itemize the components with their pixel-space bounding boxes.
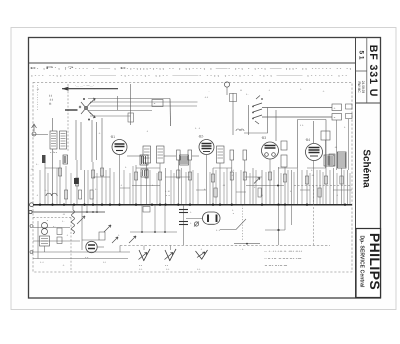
wire output stage frame (298, 120, 327, 169)
svg-text:·••: ·•• (222, 183, 225, 187)
svg-text:•·•·: •·•· (197, 268, 201, 271)
wire gang drop 4 (96, 122, 98, 160)
svg-text:·••: ·•• (311, 173, 314, 177)
svg-text:·•: ·• (120, 183, 122, 187)
loudspeaker LS2 (165, 249, 177, 268)
Dpt SERVICE Central text (359, 235, 365, 288)
AVC dashed vertical (313, 186, 315, 246)
svg-text:•·: •· (31, 173, 33, 177)
svg-text:•·: •· (204, 187, 206, 191)
svg-text:•··: •·· (53, 225, 56, 229)
oscillator coil L1 (50, 131, 57, 149)
svg-text:••: •• (240, 88, 242, 92)
svg-text:·••: ·•• (62, 212, 65, 216)
svg-text:Dp˵ SERVICE Central: Dp˵ SERVICE Central (359, 235, 365, 288)
svg-text:•·: •· (290, 189, 292, 193)
IF transformer S2 (143, 146, 151, 163)
wire switch feedback loop (244, 105, 268, 135)
svg-text:• •·: • •· (300, 123, 304, 127)
wire ferrite drop (101, 118, 103, 160)
dark capacitor block (74, 178, 79, 184)
svg-text:,... ..,,…... —— .,.…,.: ,... ..,,…... —— .,.…,. ,,.. ——. ..,, ,.… (30, 73, 348, 77)
svg-text:•· ••: •· •• (165, 189, 170, 193)
tone caps column (346, 104, 353, 119)
wire coil drops right (326, 119, 349, 170)
svg-text:•··: •·· (95, 187, 98, 191)
svg-text:•·: •· (125, 165, 127, 169)
svg-text:•·•: •·• (139, 264, 142, 268)
resistor R3 (177, 150, 181, 160)
header separator line (29, 62, 356, 64)
main HT bus (30, 203, 352, 207)
IF can S6 striped (180, 155, 189, 165)
svg-text:•·•: •·• (103, 261, 106, 264)
tube B1 (110, 135, 127, 155)
capacitor block C8 (42, 155, 68, 164)
tone block striped (324, 155, 334, 166)
svg-text:•·•·: •·•· (139, 268, 143, 271)
svg-text:·B1: ·B1 (110, 135, 115, 139)
rectifier tube B6 (85, 241, 97, 259)
wire antenna lead (33, 134, 48, 136)
wire gang drop 3 (91, 120, 93, 162)
resistor R6 (230, 150, 234, 160)
wire fan line 1 (88, 98, 170, 100)
svg-text:•·: •· (190, 221, 192, 225)
wire volume line (132, 185, 284, 187)
svg-text:·•: ·• (231, 173, 233, 177)
title text Schema (361, 149, 372, 188)
svg-text:·•·: ·•· (333, 115, 336, 119)
svg-text:·•• ·••·•· •• •·••··•••: ·•• ·••·•· •• •·••··••• (264, 264, 287, 268)
svg-text:·•·: ·•· (322, 89, 325, 93)
svg-text:•· ²•·•: •· ²•·• (50, 151, 57, 155)
wire fan line 2 (90, 101, 198, 103)
heater distribution line (120, 245, 330, 247)
resistor R4 (188, 150, 192, 160)
ground arrow (129, 236, 136, 243)
svg-text:•··: •·· (246, 92, 249, 96)
svg-text:·•: ·• (46, 220, 48, 223)
loudspeaker LS3 (196, 248, 208, 260)
tuning gang C1 rotor (79, 98, 95, 121)
AVC dashed line right (294, 185, 352, 187)
svg-text:•·: •· (190, 210, 192, 214)
decoupling resistor row (59, 168, 344, 186)
svg-text:24.08.93: 24.08.93 (361, 81, 365, 94)
svg-text:••·: ••· (49, 102, 52, 106)
wire dashed drop from dial (67, 84, 69, 152)
wire fan line 4 (88, 110, 152, 112)
heater stub wire (234, 243, 260, 245)
title block sub-divider (366, 38, 368, 104)
svg-text:·•: ·• (66, 234, 68, 237)
svg-text:·•: ·• (232, 213, 234, 216)
svg-text:·• ·•: ·• ·• (165, 194, 170, 198)
paper scan edge (11, 28, 396, 310)
legend note line 1 (264, 249, 302, 253)
svg-text:·•: ·• (336, 193, 338, 197)
svg-text:•·: •· (311, 168, 313, 172)
filter choke squiggle (62, 205, 75, 234)
wire gang drop 2 (80, 122, 82, 170)
bus junction dots (39, 204, 346, 206)
choke coil humps (44, 188, 57, 196)
svg-text:Schéma: Schéma (361, 149, 372, 188)
svg-text:·•·•: ·•·• (204, 95, 208, 99)
svg-text:·•: ·• (36, 193, 38, 197)
PSU wiring (32, 221, 131, 259)
grid stopper ticks (120, 188, 310, 192)
svg-text:•··: •·· (36, 162, 39, 166)
output transformer T1 (329, 152, 346, 168)
PSU labels (40, 220, 120, 268)
bus value box (143, 207, 234, 216)
wire drop from coupling box (169, 99, 172, 127)
potentiometer arrow (254, 178, 260, 184)
header parts list row 2 (30, 73, 348, 77)
wire left column (52, 118, 54, 205)
svg-text:·•··: ·•·· (44, 188, 48, 192)
IF can S5 striped (140, 155, 148, 165)
svg-text:·B4: ·B4 (305, 138, 310, 142)
top specks row (208, 87, 325, 93)
pilot lamp (194, 222, 199, 227)
wire band extra verticals (40, 166, 350, 204)
dial cord thick bar (65, 109, 78, 111)
svg-text:RW MC: RW MC (357, 81, 361, 93)
svg-text:•·•: •·• (165, 264, 168, 268)
dotted dial scale column (37, 85, 39, 110)
scattered value labels (36, 87, 346, 251)
component band vertical wires (45, 155, 348, 205)
svg-text:•·: •· (300, 87, 302, 91)
svg-text:·•: ·• (146, 129, 148, 133)
wire oscillator loop (230, 93, 277, 141)
svg-text:·•·: ·•· (62, 264, 65, 267)
AM antenna coil L4 (332, 104, 342, 111)
ferrite rod coil left wire (128, 84, 134, 125)
title text S 1 (358, 50, 365, 59)
svg-text:•·: •· (344, 125, 346, 129)
tube B3 (261, 136, 279, 159)
voltage selector boxes (53, 225, 62, 244)
svg-text:·•: ·• (200, 248, 202, 251)
svg-text:•··•: •··• (40, 261, 44, 264)
mains terminals (30, 225, 33, 254)
title block left border (355, 38, 357, 299)
coil hump pair osc (236, 129, 244, 131)
svg-text:•··: •·· (152, 183, 155, 187)
wire switch to FM coil (262, 116, 332, 118)
svg-text:·B3: ·B3 (261, 136, 266, 140)
svg-text:·•·: ·•· (98, 131, 101, 135)
wire stub FM front (117, 96, 119, 110)
svg-text:·•·: ·•· (333, 106, 336, 110)
mains switch arrows (104, 225, 118, 243)
electrolytic capacitor C60 (179, 205, 192, 245)
svg-text:·•: ·• (31, 179, 33, 183)
svg-text:·••: ·•• (31, 167, 34, 171)
coupling caps C21 C22 (281, 141, 287, 167)
date box (356, 71, 367, 93)
svg-text:··: ·· (208, 89, 210, 93)
secondary AB line (29, 205, 105, 214)
mains transformer (40, 223, 50, 247)
wire fan line 5 (90, 115, 131, 117)
svg-text:·•: ·• (268, 88, 270, 92)
coil arrow (77, 216, 85, 224)
svg-text:BF 331 U: BF 331 U (367, 45, 379, 98)
PHILIPS logo text (367, 233, 383, 290)
svg-text:·B2·: ·B2· (198, 135, 204, 139)
svg-text:•··: •·· (62, 219, 65, 223)
heater feed wires (130, 205, 177, 233)
svg-text:•· ·•: •· ·• (195, 126, 200, 130)
sheet frame border (29, 38, 381, 299)
header parts list row 1 (30, 66, 352, 70)
title text BF 331 U (367, 45, 379, 98)
svg-text:c. ,P·, ;?…. . — , c.,.,: c. ,P·, ;?…. . — , c.,.,,,,.,.,, .. , ,,… (30, 66, 352, 70)
mains fuse box (82, 232, 105, 240)
wire switch to AM coil (262, 107, 332, 109)
oscillator coil L2 (60, 131, 67, 149)
svg-text:5 1: 5 1 (358, 50, 365, 59)
wire AF line (313, 121, 315, 143)
chassis dashed outline (33, 83, 352, 273)
wire below bus (81, 205, 83, 250)
svg-text:•··•: •··• (216, 228, 220, 232)
PSU dashed compartment (33, 218, 71, 273)
speaker labels (139, 268, 201, 271)
svg-text:•·•·: •·•· (85, 256, 89, 260)
heater wire (265, 205, 292, 245)
legend note line 2 (264, 257, 302, 261)
dial pointer arrow (62, 84, 118, 91)
tube B4 (305, 138, 323, 161)
wire gang drop 1 (75, 120, 77, 160)
title block cell divider under BF331U (356, 102, 381, 104)
legend note line 3 (264, 264, 287, 268)
PHILIPS logo box (356, 229, 381, 298)
svg-text:PHILIPS: PHILIPS (367, 233, 383, 290)
svg-text:·… …·· —…·: ·… …·· —…· (75, 84, 94, 88)
IF transformer S4 (217, 146, 225, 163)
IF can S7 striped (141, 169, 148, 177)
svg-text:•·: •· (118, 234, 120, 237)
resistor R7 (243, 150, 247, 160)
svg-text:· •·: · •· (240, 247, 244, 251)
FM antenna coil L5 (332, 114, 342, 121)
antenna input terminal (32, 124, 37, 136)
tube B2 (198, 135, 214, 155)
AE socket box (49, 93, 53, 105)
svg-text:— ·•···• •··•·••· ••· ·•••: — ·•···• •··•·••· ••· ·•••·• ·••·•·• (264, 249, 302, 253)
speaker feed wires (144, 246, 171, 251)
cathode resistor row (65, 188, 322, 199)
svg-text:•·•: •·• (231, 168, 234, 172)
coupling box on fan (152, 100, 163, 107)
IF transformer S3 (157, 146, 165, 163)
loudspeaker LS1 (139, 249, 151, 268)
detector box (321, 131, 330, 140)
band row wires (45, 168, 352, 190)
wire tubes row link (127, 155, 199, 157)
transistor label column (31, 94, 338, 198)
svg-text:•·•·: •·•· (166, 268, 170, 271)
label 2x25 (50, 151, 57, 155)
svg-text:— ••··• ••· ·••··•• ••· •: — ••··• ••· ·••··•• ••· ••·•· •·•••· (264, 257, 302, 261)
tube B5 heater detail (186, 205, 246, 240)
band switch S1 (252, 96, 263, 125)
wire fan line 3 (90, 105, 197, 107)
svg-text:·•·: ·•· (153, 102, 156, 106)
antenna circle Q (224, 82, 229, 95)
